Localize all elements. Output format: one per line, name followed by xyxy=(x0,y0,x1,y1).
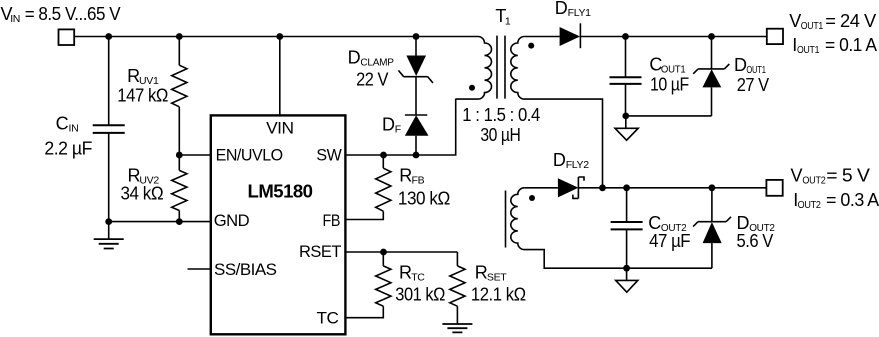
label RUV1 xyxy=(117,66,168,106)
svg-text:R: R xyxy=(399,166,412,186)
transformer T1 primary winding xyxy=(456,37,492,100)
svg-text:22 V: 22 V xyxy=(356,70,388,90)
pin label EN/UVLO xyxy=(216,146,283,165)
svg-text:OUT2: OUT2 xyxy=(802,175,825,187)
svg-text:TC: TC xyxy=(411,272,425,284)
node return1 junction xyxy=(622,113,629,120)
label COUT2 xyxy=(648,213,690,251)
wire output1 return xyxy=(626,115,712,117)
label DFLY1 xyxy=(555,0,591,19)
node return2 junction xyxy=(623,265,630,272)
output terminal VOUT1 xyxy=(767,29,783,44)
label DOUT1 xyxy=(734,55,769,95)
svg-text:R: R xyxy=(475,263,488,283)
wire SW net xyxy=(345,99,455,155)
output terminal VOUT2 xyxy=(766,180,782,196)
transformer T1 secondary 2 winding xyxy=(511,188,712,268)
svg-text:30 µH: 30 µH xyxy=(480,125,520,145)
resistor RFB xyxy=(345,155,391,220)
svg-text:R: R xyxy=(399,263,412,283)
label DFLY2 xyxy=(553,150,589,171)
capacitor COUT2 xyxy=(611,188,643,268)
svg-text:D: D xyxy=(348,48,361,68)
node GND-CIN junction xyxy=(105,218,112,225)
label IOUT2 net xyxy=(793,190,879,211)
svg-text:OUT1: OUT1 xyxy=(797,44,820,56)
transformer T1 core xyxy=(497,36,505,99)
node secondary2 phase dot xyxy=(529,195,535,201)
svg-text:5.6 V: 5.6 V xyxy=(737,231,774,251)
wire VOUT2 rail xyxy=(578,187,766,189)
ground earth under CIN xyxy=(94,222,124,249)
svg-text:1 : 1.5 : 0.4: 1 : 1.5 : 0.4 xyxy=(462,105,540,125)
svg-text:OUT2: OUT2 xyxy=(798,199,821,211)
wire EN/UVLO xyxy=(179,154,211,156)
svg-text:V: V xyxy=(789,11,801,31)
svg-text:SET: SET xyxy=(487,272,507,284)
pin label SW xyxy=(316,146,341,165)
svg-text:IN: IN xyxy=(10,13,20,25)
node VIN-CIN junction xyxy=(105,33,112,40)
svg-text:10 µF: 10 µF xyxy=(650,74,689,94)
node EN-RUV junction xyxy=(176,152,183,159)
svg-text:= 0.3 A: = 0.3 A xyxy=(826,190,879,210)
svg-text:FLY1: FLY1 xyxy=(568,7,592,19)
svg-text:= 24 V: = 24 V xyxy=(825,11,876,31)
svg-text:SS/BIAS: SS/BIAS xyxy=(214,260,277,279)
svg-text:D: D xyxy=(382,115,395,135)
svg-text:D: D xyxy=(734,55,747,75)
resistor RUV2 xyxy=(172,155,187,222)
svg-text:FLY2: FLY2 xyxy=(566,159,590,171)
node RSET-RTC junction xyxy=(380,249,387,256)
transformer T1 secondary 1 winding xyxy=(511,37,603,188)
svg-text:CLAMP: CLAMP xyxy=(360,57,394,69)
label IOUT1 net xyxy=(792,35,877,56)
wire SS/BIAS stub xyxy=(188,268,211,270)
transformer T1 core secondary 2 xyxy=(505,191,507,248)
resistor RTC xyxy=(345,252,391,318)
svg-text:130 kΩ: 130 kΩ xyxy=(398,189,450,209)
label RFB xyxy=(398,166,450,209)
op-amp U1 LM5180 body xyxy=(211,115,346,334)
node VIN-pin junction xyxy=(276,33,283,40)
pin label TC xyxy=(317,309,339,328)
node VOUT1-COUT1 junction xyxy=(622,33,629,40)
svg-text:D: D xyxy=(555,0,568,18)
resistor RUV1 xyxy=(172,37,187,156)
label T1 xyxy=(495,6,511,27)
zener DCLAMP xyxy=(398,37,433,116)
label turns ratio xyxy=(462,105,540,125)
svg-text:SW: SW xyxy=(316,146,341,165)
input terminal VIN xyxy=(59,29,75,45)
zener DOUT2 xyxy=(693,188,731,268)
resistor RSET xyxy=(450,252,465,324)
node SW-RFB junction xyxy=(380,152,387,159)
svg-text:F: F xyxy=(395,124,401,136)
diode DF xyxy=(405,115,429,155)
svg-text:47 µF: 47 µF xyxy=(649,231,690,251)
svg-text:FB: FB xyxy=(412,175,425,187)
diode DFLY1 xyxy=(560,23,581,48)
wire VIN pin xyxy=(279,37,281,116)
label CIN xyxy=(44,113,92,158)
svg-text:= 8.5 V...65 V: = 8.5 V...65 V xyxy=(25,4,121,24)
ground signal output2 xyxy=(616,268,638,292)
wire VIN top rail xyxy=(74,36,478,38)
label DOUT2 xyxy=(737,213,776,251)
label COUT1 xyxy=(649,55,689,95)
label RUV2 xyxy=(121,166,164,204)
svg-text:IN: IN xyxy=(69,122,79,134)
svg-text:2.2 µF: 2.2 µF xyxy=(44,138,92,158)
node VIN-RUV1 junction xyxy=(176,33,183,40)
svg-text:VIN: VIN xyxy=(266,119,293,138)
node primary phase dot xyxy=(469,85,475,91)
node secondary1 phase dot xyxy=(528,43,534,49)
svg-text:V: V xyxy=(791,166,803,186)
svg-text:301 kΩ: 301 kΩ xyxy=(395,285,445,305)
node VOUT1-DOUT1 junction xyxy=(708,33,715,40)
label inductance xyxy=(480,125,520,145)
label DF xyxy=(382,115,401,136)
ground signal output1 xyxy=(615,116,638,140)
svg-text:C: C xyxy=(56,113,69,133)
label RTC xyxy=(395,263,445,305)
label LM5180 xyxy=(248,182,313,202)
pin label GND xyxy=(214,211,250,230)
pin label SS/BIAS xyxy=(214,260,277,279)
pin label FB xyxy=(323,211,341,230)
label VOUT2 net xyxy=(791,166,870,187)
svg-text:GND: GND xyxy=(214,211,250,230)
svg-text:147 kΩ: 147 kΩ xyxy=(117,86,168,106)
capacitor CIN xyxy=(93,37,125,222)
svg-text:= 0.1 A: = 0.1 A xyxy=(825,35,877,55)
label VIN net xyxy=(1,4,121,25)
svg-text:= 5 V: = 5 V xyxy=(826,166,870,186)
wire GND rail xyxy=(109,221,211,223)
wire RSET net xyxy=(345,251,457,253)
label DCLAMP xyxy=(348,48,394,90)
capacitor COUT1 xyxy=(610,37,642,116)
svg-text:27 V: 27 V xyxy=(737,75,769,95)
svg-text:FB: FB xyxy=(323,211,341,230)
pin label VIN xyxy=(266,119,293,138)
svg-text:RSET: RSET xyxy=(299,242,341,261)
svg-text:1: 1 xyxy=(505,15,511,27)
svg-text:C: C xyxy=(648,213,661,233)
label VOUT1 net xyxy=(789,11,876,32)
svg-text:D: D xyxy=(737,213,750,233)
label RSET xyxy=(471,263,526,305)
wire VOUT1 rail xyxy=(580,36,766,38)
node SW-DF junction xyxy=(413,152,420,159)
node VOUT2-sec1 junction xyxy=(599,184,606,191)
svg-text:LM5180: LM5180 xyxy=(248,182,313,202)
node VOUT2-COUT2 junction xyxy=(623,184,630,191)
svg-text:34 kΩ: 34 kΩ xyxy=(121,184,164,204)
svg-text:D: D xyxy=(553,150,566,170)
node VOUT2-DOUT2 junction xyxy=(709,184,716,191)
node VIN-DCLAMP junction xyxy=(413,33,420,40)
svg-text:12.1 kΩ: 12.1 kΩ xyxy=(471,285,526,305)
svg-text:EN/UVLO: EN/UVLO xyxy=(216,146,283,165)
pin label RSET xyxy=(299,242,341,261)
diode DFLY2 schottky xyxy=(558,177,584,198)
ground earth under RSET xyxy=(442,324,472,332)
zener DOUT1 xyxy=(693,37,729,116)
svg-text:TC: TC xyxy=(317,309,339,328)
svg-text:OUT1: OUT1 xyxy=(801,20,824,32)
node GND-RUV2 junction xyxy=(176,218,183,225)
